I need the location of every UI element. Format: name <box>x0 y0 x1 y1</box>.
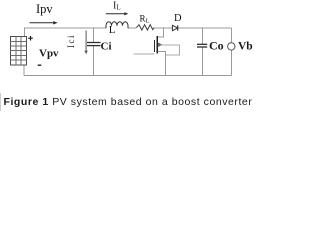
caption left border <box>0 93 2 111</box>
transistor Q1 channel bar <box>156 36 158 53</box>
arrow Ipv <box>30 21 58 24</box>
svg-text:D: D <box>174 13 182 24</box>
wire bottom rail <box>24 75 232 77</box>
wire top rail segment 2 <box>128 27 137 29</box>
wire top rail segment 4 <box>179 27 232 29</box>
svg-text:IL: IL <box>113 0 121 11</box>
inductor L <box>106 22 128 28</box>
plus terminal <box>28 36 33 41</box>
source Vb circle <box>228 43 235 50</box>
svg-text:Vpv: Vpv <box>39 47 59 59</box>
svg-text:Ci: Ci <box>101 40 112 52</box>
svg-text:Ici: Ici <box>66 34 76 48</box>
capacitor Co plates <box>197 44 207 47</box>
wire top rail segment 1 <box>25 28 107 36</box>
svg-text:Vb: Vb <box>238 40 253 52</box>
capacitor Co wires <box>202 28 204 75</box>
wire PV bottom stub <box>23 65 25 76</box>
wire top rail segment 3 <box>154 27 172 29</box>
svg-text:Co: Co <box>209 39 224 53</box>
svg-text:L: L <box>109 24 116 36</box>
capacitor Ci wires <box>93 28 95 75</box>
resistor RL <box>137 25 155 30</box>
arrow Ici <box>84 31 87 55</box>
minus terminal <box>38 64 42 66</box>
wire mosfet drain <box>157 28 163 37</box>
transistor Q1 body arrow <box>158 43 162 47</box>
svg-text:RL: RL <box>140 14 150 25</box>
wire source lead <box>158 52 166 76</box>
arrow IL <box>106 12 129 15</box>
diode D <box>172 25 177 30</box>
solar panel Vpv <box>11 37 27 65</box>
svg-text:Figure 1 PV system based on a: Figure 1 PV system based on a boost conv… <box>4 96 253 108</box>
source Vb wires <box>231 28 233 75</box>
wire gate lead <box>134 53 155 55</box>
svg-text:Ipv: Ipv <box>36 2 53 16</box>
capacitor Ci plates <box>87 43 101 46</box>
wire body lead <box>158 45 180 55</box>
transistor Q1 gate bar <box>154 40 156 52</box>
